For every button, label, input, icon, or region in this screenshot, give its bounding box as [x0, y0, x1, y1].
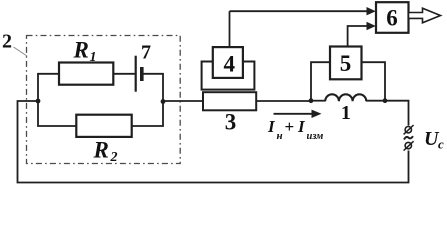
wire junction to block 3: [163, 100, 202, 102]
node left junction: [36, 99, 41, 104]
inductor 1 arcs: [325, 94, 366, 101]
arrowhead into block 6 top input: [367, 7, 376, 15]
wire top run to block 6: [230, 10, 370, 12]
wire R2 to right junction: [132, 101, 163, 126]
wire block 5 left bracket: [311, 62, 330, 101]
svg-text:1: 1: [90, 50, 97, 65]
wire block 5 to block 6: [348, 26, 369, 47]
battery 7 short plate: [140, 67, 144, 81]
svg-text:изм: изм: [307, 131, 324, 142]
svg-text:c: c: [438, 137, 444, 152]
block 6: [376, 2, 409, 33]
resistor R2: [76, 115, 131, 137]
svg-text:R: R: [73, 38, 89, 63]
block 3: [203, 92, 256, 110]
block 3 upper bracket box: [202, 62, 255, 90]
wire battery to right junction: [143, 74, 164, 101]
svg-text:4: 4: [224, 52, 236, 77]
output hollow arrow: [409, 8, 441, 23]
current direction arrow: [274, 113, 315, 115]
resistor R1: [59, 63, 113, 85]
wire left stub and bottom return: [18, 101, 409, 183]
wire inductor right lead: [366, 100, 385, 102]
wire inductor left lead: [311, 100, 325, 102]
leader line from label 2: [14, 47, 28, 56]
terminal top (circle with slash): [405, 127, 411, 133]
svg-text:R: R: [93, 138, 109, 163]
wire block 4 to top: [229, 11, 231, 47]
terminal bottom (circle with slash): [405, 142, 411, 148]
node inductor right junction: [383, 98, 388, 103]
svg-text:1: 1: [341, 102, 351, 124]
svg-text:7: 7: [141, 42, 151, 64]
svg-text:н: н: [277, 130, 283, 142]
node inductor left junction: [309, 98, 314, 103]
wire R1 to battery: [113, 73, 135, 75]
svg-text:+: +: [285, 117, 295, 136]
wire block 5 right bracket: [362, 62, 386, 101]
svg-text:6: 6: [386, 6, 398, 31]
arrowhead into block 6 bottom input: [367, 22, 376, 30]
wire block 3 to inductor: [256, 100, 311, 102]
wire junction to source terminal: [385, 101, 409, 126]
battery 7 long plate: [135, 56, 137, 92]
wire R1 branch left: [38, 74, 59, 101]
wire R2 branch left: [38, 101, 76, 126]
node right junction: [161, 99, 166, 104]
dashed enclosure box 2: [27, 36, 181, 164]
svg-text:2: 2: [2, 31, 12, 53]
AC tilde: [404, 136, 413, 139]
block 4: [213, 47, 243, 78]
svg-text:5: 5: [340, 51, 352, 76]
block 5: [330, 47, 362, 80]
svg-text:3: 3: [225, 110, 237, 135]
svg-text:2: 2: [110, 150, 118, 165]
